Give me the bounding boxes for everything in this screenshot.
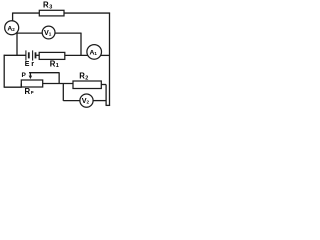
resistor R1 bbox=[39, 52, 65, 69]
resistor R3 bbox=[39, 0, 64, 16]
ammeter A2 bbox=[5, 21, 19, 35]
svg-text:3: 3 bbox=[49, 4, 52, 10]
wire V1 drop to main loop bbox=[80, 33, 82, 55]
battery E r bbox=[25, 50, 40, 68]
wire V2 left bbox=[63, 100, 80, 102]
wire R1 to A1 bbox=[65, 54, 88, 56]
wire rheostat right to R2 bbox=[43, 83, 73, 85]
svg-text:R: R bbox=[43, 0, 49, 9]
label P wiper bbox=[22, 72, 27, 79]
wire V1 right bbox=[55, 32, 82, 34]
svg-text:R: R bbox=[25, 87, 31, 96]
resistor R2 bbox=[73, 72, 101, 89]
wire top-left corner drop to A2 bbox=[12, 13, 14, 22]
rheostat RP box bbox=[21, 80, 42, 96]
svg-text:1: 1 bbox=[56, 63, 59, 69]
wire wiper drop bbox=[58, 73, 60, 84]
wire A2 to V1 bbox=[16, 32, 42, 34]
ammeter A1 bbox=[87, 45, 102, 60]
wire bottom-right stub to border bbox=[106, 104, 111, 106]
wire top-left horizontal bbox=[13, 12, 40, 14]
wire bottom-left to rheostat bbox=[4, 84, 22, 88]
wire left border top (battery wire) bbox=[4, 54, 26, 56]
voltmeter V1 bbox=[42, 26, 55, 39]
voltmeter V2 bbox=[80, 94, 93, 107]
wire V2 branch left drop bbox=[62, 84, 64, 101]
svg-text:2: 2 bbox=[87, 100, 90, 105]
wiper bar and arrow bbox=[29, 73, 60, 79]
wire V2 right bbox=[93, 100, 106, 102]
svg-text:2: 2 bbox=[12, 27, 15, 32]
svg-text:P: P bbox=[31, 90, 34, 95]
wire R2 right bbox=[101, 84, 106, 86]
wire right border vertical bbox=[109, 13, 111, 106]
svg-text:1: 1 bbox=[94, 51, 97, 56]
svg-text:1: 1 bbox=[49, 32, 52, 37]
svg-text:2: 2 bbox=[85, 76, 88, 82]
wire R3 to top-right corner bbox=[64, 12, 110, 14]
wire A1 to right border bbox=[101, 54, 110, 56]
wire left border vertical bbox=[3, 55, 5, 87]
svg-text:P: P bbox=[22, 72, 27, 79]
svg-text:E: E bbox=[25, 61, 30, 68]
wire R2/V2 right vertical bbox=[105, 85, 107, 106]
svg-text:r: r bbox=[31, 59, 34, 68]
wire node drop A2/V1 to battery wire bbox=[16, 33, 18, 55]
